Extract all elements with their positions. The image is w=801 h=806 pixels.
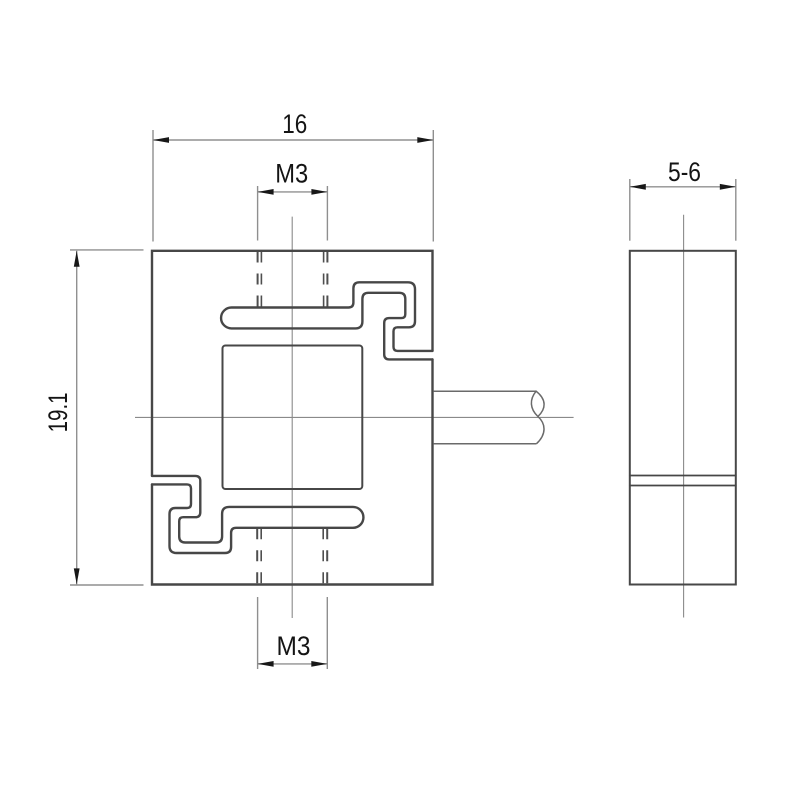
svg-text:M3: M3 [277, 631, 311, 661]
svg-text:5-6: 5-6 [668, 157, 701, 187]
svg-text:16: 16 [282, 109, 307, 139]
svg-text:19.1: 19.1 [43, 392, 73, 432]
svg-text:M3: M3 [275, 159, 308, 189]
